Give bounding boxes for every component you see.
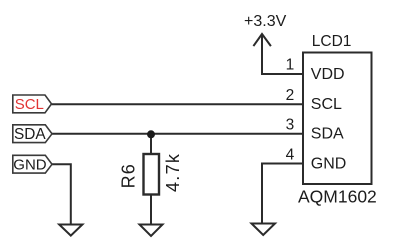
svg-text:3: 3 [286,117,295,134]
svg-text:AQM1602: AQM1602 [298,187,377,207]
svg-text:4: 4 [286,146,295,163]
svg-text:SCL: SCL [15,96,44,113]
svg-text:SCL: SCL [311,96,342,113]
svg-text:GND: GND [311,155,347,172]
svg-text:LCD1: LCD1 [312,33,352,50]
svg-text:VDD: VDD [311,66,345,83]
svg-text:1: 1 [286,57,295,74]
svg-text:GND: GND [13,156,47,173]
svg-text:2: 2 [286,87,295,104]
svg-text:R6: R6 [119,163,139,188]
svg-text:SDA: SDA [14,126,46,143]
svg-text:+3.3V: +3.3V [244,13,287,30]
svg-text:SDA: SDA [311,126,344,143]
svg-text:4.7k: 4.7k [163,153,183,192]
